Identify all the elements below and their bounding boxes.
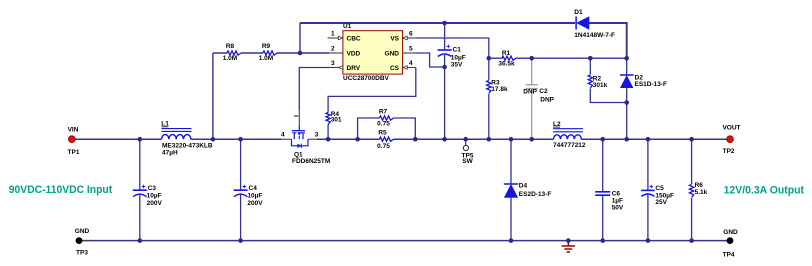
svg-text:10µF: 10µF	[451, 54, 466, 61]
resistor R8	[227, 51, 241, 55]
wire VS pin to divider corner	[416, 38, 489, 58]
svg-text:4: 4	[409, 60, 413, 67]
svg-text:25V: 25V	[655, 199, 667, 206]
wire top rail from VDD node to D1 anode	[300, 22, 575, 24]
resistor R5	[380, 137, 394, 141]
svg-text:FDD6N25TM: FDD6N25TM	[292, 158, 330, 165]
svg-text:3: 3	[331, 60, 335, 67]
capacitor C6	[595, 192, 610, 195]
svg-text:ES1D-13-F: ES1D-13-F	[635, 81, 668, 88]
resistor R1	[502, 56, 516, 60]
diode D2	[621, 76, 633, 88]
svg-text:GND: GND	[75, 228, 90, 235]
svg-text:C2: C2	[539, 88, 548, 95]
svg-text:TP2: TP2	[723, 148, 735, 155]
wire CS to R4 top	[328, 68, 416, 140]
svg-text:ES2D-13-F: ES2D-13-F	[519, 191, 552, 198]
svg-text:301k: 301k	[593, 82, 608, 89]
svg-text:301: 301	[331, 116, 342, 123]
svg-text:VOUT: VOUT	[722, 124, 740, 131]
resistor R2	[588, 75, 592, 88]
svg-text:C3: C3	[148, 185, 157, 192]
wire C1 branch vertical	[444, 23, 446, 139]
svg-text:R5: R5	[378, 129, 387, 136]
wire R7 parallel branch	[358, 118, 416, 139]
svg-text:0.75: 0.75	[377, 143, 390, 150]
capacitor C5 (polarized)	[641, 189, 655, 191]
wire R3 branch vertical	[488, 58, 490, 139]
svg-text:200V: 200V	[247, 200, 263, 207]
wire C3 branch vertical	[139, 139, 141, 240]
svg-text:VS: VS	[390, 35, 399, 42]
svg-text:DRV: DRV	[347, 65, 361, 72]
inductor L1	[162, 135, 191, 140]
svg-text:6: 6	[409, 30, 413, 37]
svg-text:VDD: VDD	[347, 50, 361, 57]
resistor R4	[326, 113, 330, 125]
diode D1	[577, 17, 589, 29]
svg-text:90VDC-110VDC Input: 90VDC-110VDC Input	[9, 184, 113, 196]
diode D4	[504, 185, 517, 198]
svg-text:1: 1	[331, 30, 335, 37]
wire TP5 stub	[465, 139, 467, 145]
svg-text:R9: R9	[262, 43, 271, 50]
svg-text:CBC: CBC	[347, 35, 361, 42]
svg-text:4: 4	[281, 132, 285, 139]
wire top rail D1 cathode to right corner and down to VS divider node	[589, 23, 627, 58]
svg-text:744777212: 744777212	[553, 142, 586, 149]
svg-text:R1: R1	[502, 50, 511, 57]
test point TP5 (SW)	[463, 145, 468, 150]
svg-text:R6: R6	[695, 182, 704, 189]
U1 pin 5 stub GND	[403, 52, 416, 54]
U1 pin 3 stub DRV	[329, 67, 343, 69]
wire R6 branch vertical	[691, 139, 693, 240]
svg-text:TP1: TP1	[68, 149, 80, 156]
resistor R3	[487, 81, 491, 94]
wire GND pin to C1 negative node	[416, 53, 445, 67]
svg-text:5: 5	[409, 45, 413, 52]
svg-text:CS: CS	[390, 65, 400, 72]
svg-text:1.0M: 1.0M	[259, 55, 273, 62]
test point TP3 (GND)	[82, 240, 89, 242]
U1 pin 1 stub CBC	[328, 37, 339, 39]
capacitor C4 (polarized)	[234, 189, 248, 191]
svg-text:5.1k: 5.1k	[695, 189, 708, 196]
inductor L2	[554, 135, 582, 139]
svg-text:2: 2	[331, 45, 335, 52]
wire C4 branch vertical	[240, 139, 242, 240]
svg-text:C4: C4	[249, 185, 258, 192]
svg-text:GND: GND	[385, 50, 400, 57]
svg-text:UCC28700DBV: UCC28700DBV	[343, 75, 390, 82]
capacitor C3 (polarized)	[133, 189, 147, 191]
wire Q1 left stub	[282, 138, 292, 140]
wire bottom ground rail	[82, 240, 727, 242]
U1 pin 4 stub CS	[403, 67, 416, 69]
svg-text:ME3220-473KLB: ME3220-473KLB	[162, 142, 213, 149]
svg-text:D1: D1	[574, 9, 583, 16]
ground symbol	[562, 241, 575, 252]
svg-text:1N4148W-7-F: 1N4148W-7-F	[574, 32, 615, 39]
U1 pin 6 stub VS	[403, 37, 416, 39]
op-amp U1 body (UCC28700DBV)	[343, 31, 403, 74]
resistor R9	[263, 51, 277, 55]
wire VS divider row y58	[489, 57, 627, 59]
svg-text:C1: C1	[453, 47, 462, 54]
wire main switch rail	[75, 138, 727, 140]
svg-text:10µF: 10µF	[247, 192, 262, 199]
svg-text:10µF: 10µF	[147, 192, 162, 199]
svg-text:36.5k: 36.5k	[498, 60, 515, 67]
wire vertical from top rail down to VDD node	[299, 23, 301, 53]
wire D2 branch vertical	[626, 58, 628, 139]
wire C6 branch vertical	[602, 139, 604, 240]
svg-text:GND: GND	[723, 229, 738, 236]
wire Q1 right stub	[308, 138, 317, 140]
svg-text:DNP: DNP	[540, 97, 554, 104]
test point TP2 (VOUT)	[727, 136, 734, 143]
wire C5 branch vertical	[647, 139, 649, 240]
svg-text:17.8k: 17.8k	[491, 86, 508, 93]
transistor Q1	[298, 110, 300, 126]
svg-text:50V: 50V	[612, 204, 624, 211]
svg-text:TP4: TP4	[723, 252, 735, 259]
wire D4 branch vertical	[510, 139, 512, 240]
svg-text:D4: D4	[519, 183, 528, 190]
svg-text:200V: 200V	[147, 200, 163, 207]
svg-text:SW: SW	[462, 158, 473, 165]
U1 pin 2 stub VDD	[329, 52, 343, 54]
capacitor C2 DNP (grey)	[526, 85, 538, 89]
svg-text:C5: C5	[655, 185, 664, 192]
svg-text:C6: C6	[612, 191, 621, 198]
test point TP1 (VIN)	[75, 138, 80, 140]
svg-text:1.0M: 1.0M	[223, 55, 237, 62]
resistor R7	[380, 116, 394, 120]
svg-text:TP3: TP3	[76, 249, 88, 256]
svg-text:3: 3	[315, 132, 319, 139]
svg-text:47µH: 47µH	[162, 150, 178, 157]
svg-text:0.75: 0.75	[377, 121, 390, 128]
svg-text:VIN: VIN	[68, 126, 79, 133]
junction dots	[442, 21, 447, 26]
wire R8 R9 row to VDD pin	[213, 53, 329, 139]
wire R2 branch vertical and bottom link to D2	[590, 58, 626, 102]
svg-text:35V: 35V	[451, 62, 463, 69]
svg-text:12V/0.3A Output: 12V/0.3A Output	[724, 184, 805, 196]
svg-text:U1: U1	[343, 23, 352, 30]
test point TP4 (GND)	[727, 237, 734, 244]
wire C2 DNP branch (grey)	[531, 58, 533, 139]
capacitor C1 (polarized)	[438, 49, 452, 51]
wire DRV to Q1 gate	[299, 68, 329, 111]
svg-text:R8: R8	[226, 43, 235, 50]
resistor R6	[690, 185, 694, 198]
svg-text:DNP: DNP	[523, 89, 537, 96]
svg-text:R7: R7	[379, 109, 388, 116]
